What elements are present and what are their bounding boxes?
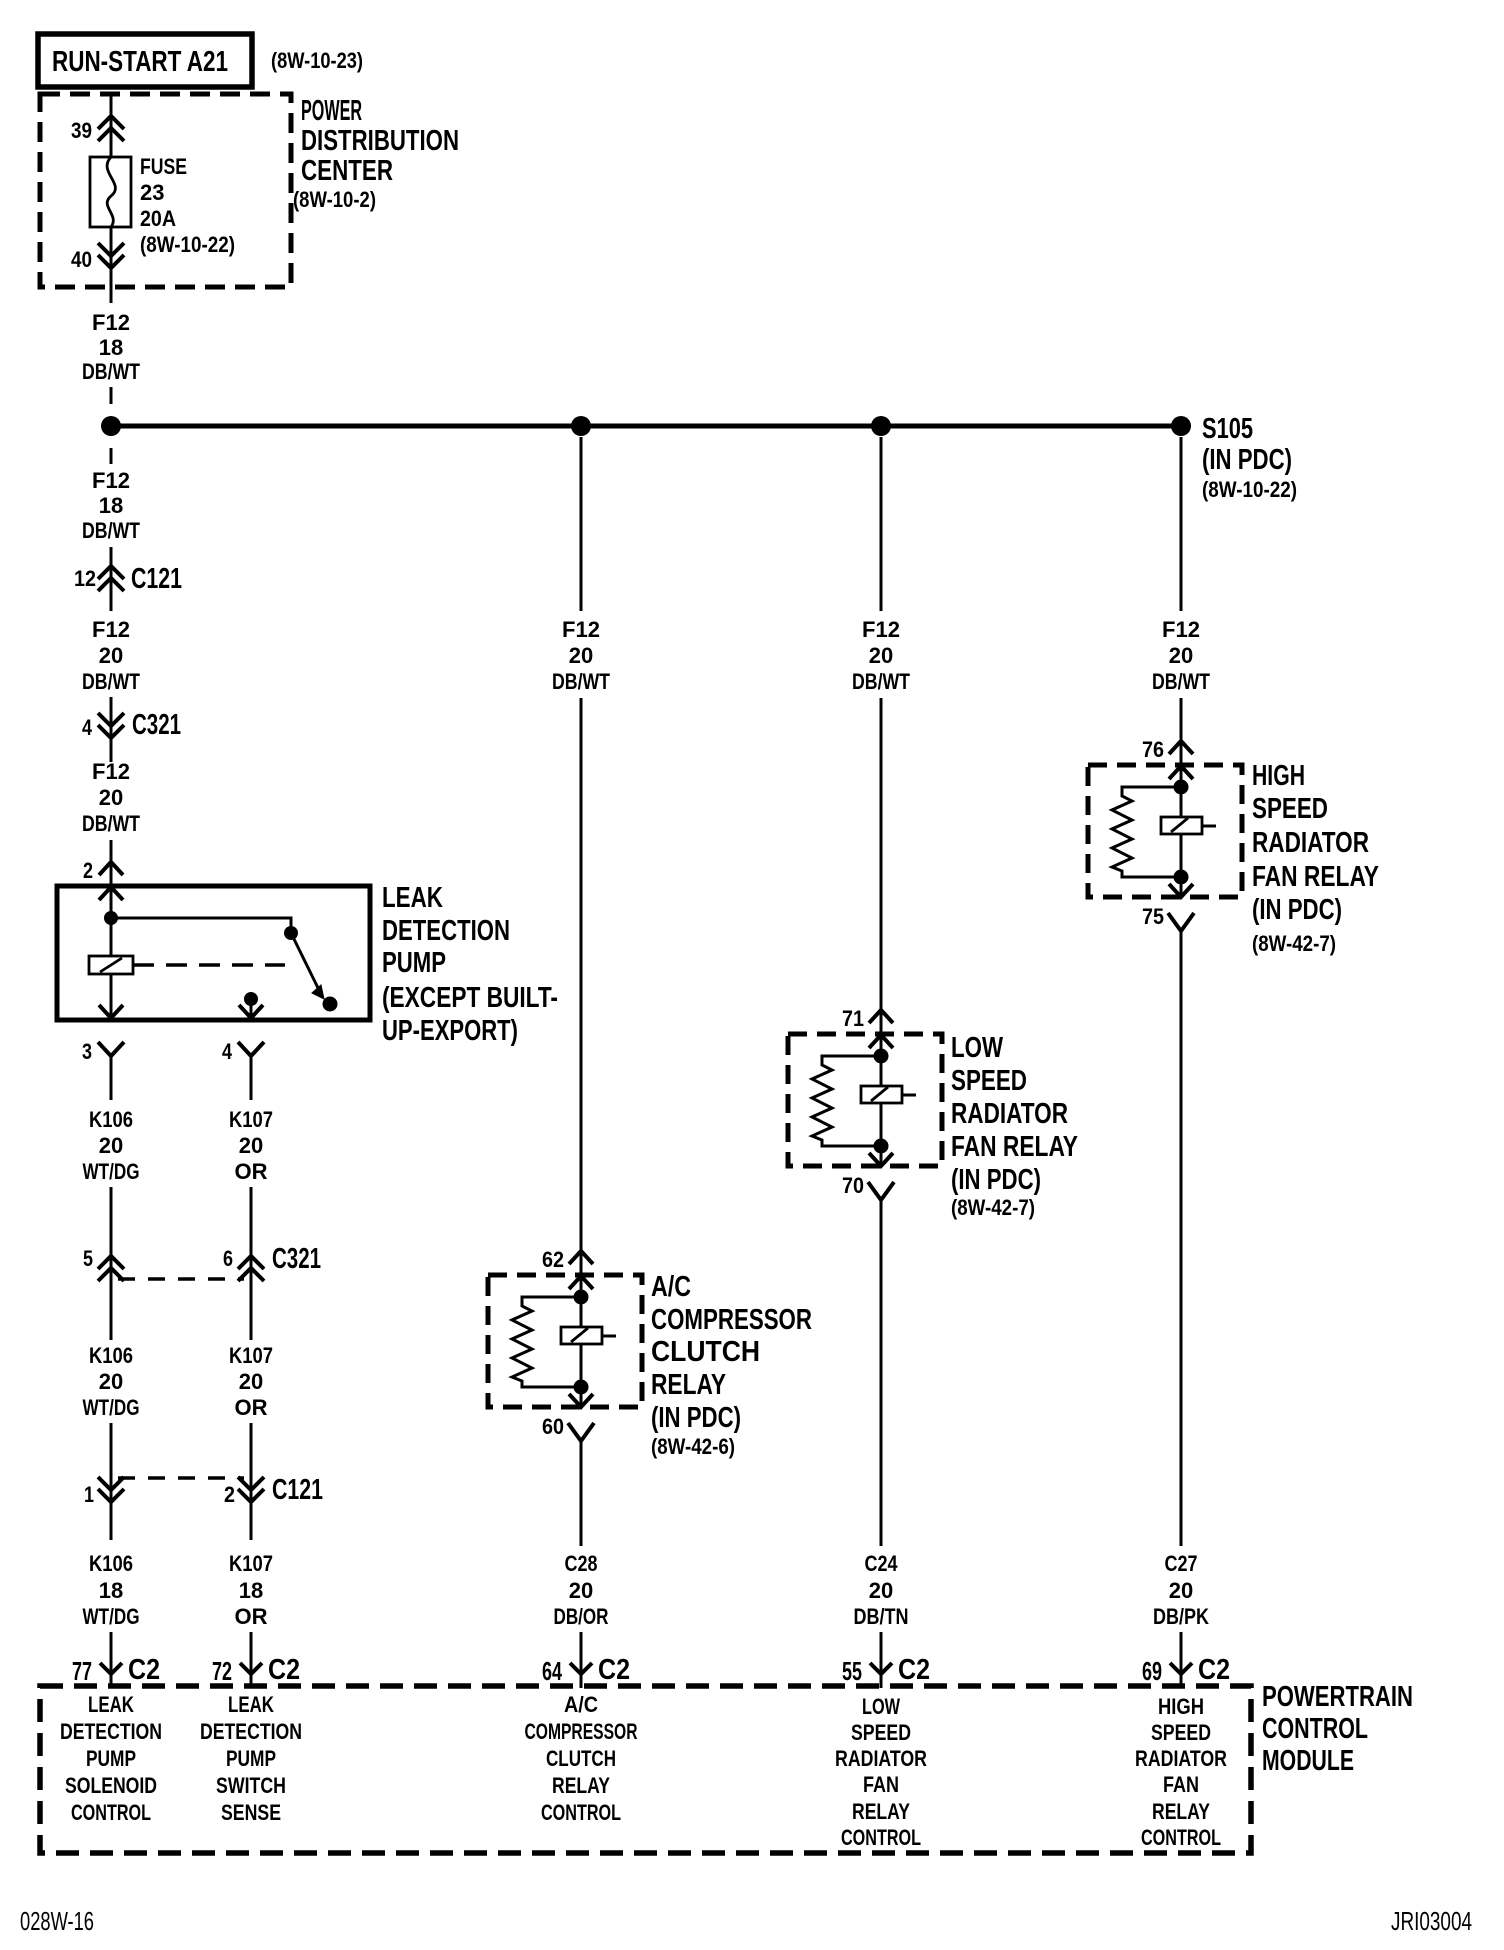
wire bus to A/C relay branch (580, 437, 583, 611)
svg-text:UP-EXPORT): UP-EXPORT) (382, 1015, 518, 1047)
high speed radiator fan relay pin 75 connector (1168, 913, 1194, 931)
wire junction to solenoid coil (110, 918, 113, 956)
A/C compressor clutch relay feed stem (580, 1251, 583, 1297)
svg-text:C2: C2 (268, 1654, 300, 1686)
svg-text:K106: K106 (89, 1551, 133, 1576)
pump pin 3 exit chevron (99, 1005, 123, 1018)
svg-text:DB/WT: DB/WT (552, 669, 610, 694)
wire solenoid coil to pin 3 (110, 974, 113, 1018)
connector C121 pin 2 (238, 1477, 264, 1502)
svg-text:DB/WT: DB/WT (82, 359, 140, 384)
svg-text:F12: F12 (92, 468, 130, 493)
svg-text:HIGH: HIGH (1252, 760, 1305, 792)
label POWER DISTRIBUTION CENTER (8W-10-2) (293, 95, 459, 212)
svg-text:RADIATOR: RADIATOR (1135, 1746, 1227, 1771)
junction switch pivot (284, 926, 298, 940)
svg-text:75: 75 (1142, 904, 1164, 929)
svg-text:MODULE: MODULE (1262, 1745, 1354, 1777)
svg-text:(8W-42-7): (8W-42-7) (1252, 931, 1336, 956)
svg-text:RADIATOR: RADIATOR (1252, 827, 1369, 859)
wire down to A/C compressor clutch relay (580, 698, 583, 1251)
svg-text:5: 5 (83, 1246, 93, 1271)
high speed radiator fan relay pin 75 exit chevron (1169, 884, 1193, 897)
svg-text:62: 62 (542, 1247, 564, 1272)
svg-text:RELAY: RELAY (852, 1799, 910, 1824)
low speed radiator fan relay coil wire upper (880, 1056, 883, 1086)
low speed radiator fan relay relay coil (861, 1086, 902, 1103)
wire label K107 20 OR second (229, 1343, 273, 1420)
wire bus to low speed relay branch (880, 437, 883, 611)
svg-text:(IN PDC): (IN PDC) (951, 1164, 1041, 1196)
A/C compressor clutch relay enclosure (488, 1275, 642, 1407)
svg-text:SPEED: SPEED (1151, 1720, 1211, 1745)
svg-text:(8W-42-7): (8W-42-7) (951, 1195, 1035, 1220)
svg-text:6: 6 (223, 1246, 233, 1271)
wire K107 to C321 pin 6 (250, 1187, 253, 1340)
pin function leak detection pump switch sense (200, 1692, 302, 1825)
svg-text:CONTROL: CONTROL (1262, 1713, 1368, 1745)
connector C321 pin 6 (238, 1256, 264, 1281)
switch throw contact junction (244, 992, 258, 1006)
svg-text:CONTROL: CONTROL (841, 1825, 921, 1850)
high speed radiator fan relay coil wire lower (1180, 834, 1183, 877)
svg-text:FAN: FAN (1163, 1772, 1199, 1797)
wire C27 to PCM pin 69 (1180, 1632, 1183, 1662)
svg-text:DISTRIBUTION: DISTRIBUTION (301, 125, 459, 157)
wire label K106 20 WT/DG (83, 1107, 140, 1184)
low speed radiator fan relay pin 70 exit chevron (869, 1153, 893, 1166)
svg-text:4: 4 (82, 715, 93, 740)
svg-text:20: 20 (869, 1578, 893, 1603)
low speed radiator fan relay pin 71 connector (869, 1010, 893, 1048)
svg-text:18: 18 (99, 1578, 123, 1603)
label HIGH SPEED RADIATOR FAN RELAY (IN PDC) (8W-42-7) (1252, 760, 1379, 956)
A/C compressor clutch relay coil wire upper (580, 1297, 583, 1327)
low speed radiator fan relay coil wire lower (880, 1103, 883, 1146)
svg-text:RELAY: RELAY (1152, 1799, 1210, 1824)
svg-text:72: 72 (212, 1656, 232, 1686)
svg-text:(8W-10-22): (8W-10-22) (1202, 477, 1297, 502)
wire label K106 20 WT/DG second (83, 1343, 140, 1420)
high speed radiator fan relay exit stem (1180, 877, 1183, 897)
svg-text:LEAK: LEAK (382, 882, 443, 914)
high speed radiator fan relay bottom junction (1174, 870, 1189, 885)
svg-text:DB/WT: DB/WT (1152, 669, 1210, 694)
svg-text:DB/PK: DB/PK (1153, 1604, 1209, 1629)
svg-text:C321: C321 (132, 709, 181, 741)
svg-text:DB/TN: DB/TN (854, 1604, 909, 1629)
switch blade contact junction (323, 997, 338, 1012)
svg-text:POWERTRAIN: POWERTRAIN (1262, 1681, 1413, 1713)
svg-text:64: 64 (542, 1656, 562, 1686)
svg-text:C28: C28 (565, 1551, 598, 1576)
svg-text:CLUTCH: CLUTCH (546, 1746, 616, 1771)
svg-text:70: 70 (842, 1173, 864, 1198)
svg-text:1: 1 (84, 1482, 94, 1507)
label LEAK DETECTION PUMP (EXCEPT BUILT-UP-EXPORT) (382, 882, 558, 1047)
svg-text:WT/DG: WT/DG (83, 1395, 140, 1420)
powertrain control module enclosure (40, 1686, 1251, 1853)
svg-text:DB/WT: DB/WT (82, 518, 140, 543)
pin 40 connector (98, 243, 124, 268)
wire down to low speed radiator fan relay (880, 698, 883, 1010)
svg-text:(8W-10-22): (8W-10-22) (140, 232, 235, 257)
svg-text:CENTER: CENTER (301, 155, 393, 187)
svg-text:3: 3 (82, 1039, 92, 1064)
svg-text:(EXCEPT BUILT-: (EXCEPT BUILT- (382, 982, 558, 1014)
svg-text:20A: 20A (140, 206, 176, 231)
svg-text:77: 77 (72, 1656, 92, 1686)
wire to connector C321 pin 4 (110, 697, 113, 762)
A/C compressor clutch relay relay coil (561, 1327, 602, 1344)
net label RUN-START A21 box (38, 34, 252, 87)
svg-text:71: 71 (842, 1006, 864, 1031)
svg-text:C121: C121 (131, 563, 182, 595)
label POWERTRAIN CONTROL MODULE (1262, 1681, 1413, 1777)
svg-text:F12: F12 (1162, 617, 1200, 642)
svg-text:K107: K107 (229, 1551, 273, 1576)
wire K106 to C321 pin 5 (110, 1187, 113, 1340)
svg-text:RADIATOR: RADIATOR (835, 1746, 927, 1771)
svg-text:2: 2 (224, 1482, 235, 1507)
high speed radiator fan relay enclosure (1088, 765, 1242, 897)
wire to leak detection pump pin 2 (110, 840, 113, 918)
wire A/C relay pin 60 down (580, 1441, 583, 1546)
svg-text:DB/WT: DB/WT (82, 811, 140, 836)
wire label F12 20 DB/WT low speed branch (852, 617, 910, 694)
svg-text:DETECTION: DETECTION (60, 1719, 162, 1744)
wire high speed relay pin 75 down (1180, 931, 1183, 1546)
low speed radiator fan relay top junction (874, 1049, 889, 1064)
svg-text:20: 20 (99, 1133, 123, 1158)
wire splice S105 to high speed relay branch (1180, 437, 1183, 611)
connector C2 pin 72 (240, 1662, 262, 1688)
A/C compressor clutch relay exit stem (580, 1387, 583, 1407)
low speed radiator fan relay coil stub (902, 1094, 916, 1097)
low speed radiator fan relay exit stem (880, 1146, 883, 1166)
pump pin 3 connector (98, 1042, 124, 1056)
svg-text:20: 20 (99, 643, 123, 668)
high speed radiator fan relay suppression resistor (1112, 787, 1181, 877)
svg-text:COMPRESSOR: COMPRESSOR (651, 1304, 812, 1336)
svg-text:C2: C2 (898, 1654, 930, 1686)
A/C compressor clutch relay pin 62 connector (569, 1251, 593, 1289)
svg-text:40: 40 (71, 247, 92, 272)
svg-text:C2: C2 (598, 1654, 630, 1686)
svg-text:20: 20 (239, 1133, 263, 1158)
wire low speed relay pin 70 down (880, 1200, 883, 1546)
pump pin 4 connector (238, 1042, 264, 1056)
svg-text:CONTROL: CONTROL (71, 1800, 151, 1825)
svg-text:2: 2 (83, 858, 93, 883)
svg-text:FUSE: FUSE (140, 154, 187, 179)
svg-text:RELAY: RELAY (651, 1369, 726, 1401)
connector C121 pin 1 (98, 1477, 124, 1502)
wire label F12 20 DB/WT second (82, 759, 140, 836)
high speed radiator fan relay feed stem (1180, 741, 1183, 787)
pump switch blade (291, 933, 324, 999)
high speed radiator fan relay relay coil (1161, 817, 1202, 834)
wire fuse to pin 40 (110, 227, 113, 268)
pin function low speed radiator fan relay control (835, 1694, 927, 1850)
wire down to high speed radiator fan relay (1180, 698, 1183, 741)
power distribution center enclosure (40, 94, 291, 287)
svg-text:K107: K107 (229, 1107, 273, 1132)
svg-text:CONTROL: CONTROL (1141, 1825, 1221, 1850)
svg-text:60: 60 (542, 1414, 564, 1439)
svg-text:SPEED: SPEED (851, 1720, 911, 1745)
svg-text:FAN RELAY: FAN RELAY (1252, 861, 1379, 893)
svg-text:RELAY: RELAY (552, 1773, 610, 1798)
pump pin 4 exit chevron (239, 1005, 263, 1018)
label LOW SPEED RADIATOR FAN RELAY (IN PDC) (8W-42-7) (951, 1032, 1078, 1220)
A/C compressor clutch relay pin 60 exit chevron (569, 1394, 593, 1407)
wire C24 to PCM pin 55 (880, 1632, 883, 1662)
connector C321 pin 5 (98, 1256, 124, 1281)
high speed radiator fan relay pin 76 connector (1169, 741, 1193, 779)
svg-text:20: 20 (99, 1369, 123, 1394)
wire label F12 20 DB/WT A/C branch (552, 617, 610, 694)
svg-text:20: 20 (869, 643, 893, 668)
junction at leak detection pump branch (101, 416, 121, 436)
mechanical link dashed (133, 963, 285, 967)
svg-text:(IN PDC): (IN PDC) (651, 1402, 741, 1434)
svg-text:20: 20 (1169, 643, 1193, 668)
high speed radiator fan relay coil stub (1202, 825, 1216, 828)
pump pin 2 connector (99, 862, 123, 900)
connector C2 pin 77 (100, 1662, 122, 1688)
svg-text:(8W-10-2): (8W-10-2) (293, 187, 376, 212)
svg-text:DETECTION: DETECTION (200, 1719, 302, 1744)
low speed radiator fan relay bottom junction (874, 1139, 889, 1154)
svg-text:12: 12 (74, 566, 96, 591)
wire C28 to PCM pin 64 (580, 1632, 583, 1662)
wire bus of splice S105 (111, 424, 1181, 429)
wire label F12 18 DB/WT (82, 310, 140, 384)
svg-text:FAN RELAY: FAN RELAY (951, 1131, 1078, 1163)
connector C121 pin 12 (98, 566, 124, 591)
wire label K106 18 WT/DG (83, 1551, 140, 1629)
high speed radiator fan relay coil wire upper (1180, 787, 1183, 817)
svg-text:C24: C24 (865, 1551, 899, 1576)
svg-text:OR: OR (235, 1159, 268, 1184)
svg-text:20: 20 (1169, 1578, 1193, 1603)
connector C121 link dashed (118, 1476, 244, 1480)
svg-text:PUMP: PUMP (226, 1746, 276, 1771)
svg-text:OR: OR (235, 1604, 268, 1629)
svg-text:PUMP: PUMP (86, 1746, 136, 1771)
A/C compressor clutch relay top junction (574, 1290, 589, 1305)
svg-text:SPEED: SPEED (1252, 793, 1328, 825)
junction at low speed radiator fan relay branch (871, 416, 891, 436)
svg-text:LEAK: LEAK (228, 1692, 274, 1717)
svg-text:WT/DG: WT/DG (83, 1604, 140, 1629)
high speed radiator fan relay top junction (1174, 780, 1189, 795)
wire switch feed (111, 918, 291, 933)
junction at A/C compressor clutch relay branch (571, 416, 591, 436)
svg-text:028W-16: 028W-16 (20, 1906, 94, 1936)
svg-text:DB/WT: DB/WT (82, 669, 140, 694)
svg-text:A/C: A/C (651, 1271, 691, 1303)
pump solenoid coil (89, 956, 133, 974)
svg-text:RUN-START A21: RUN-START A21 (52, 46, 228, 78)
svg-text:23: 23 (140, 180, 164, 205)
svg-text:C321: C321 (272, 1243, 321, 1275)
fuse F23 body (90, 157, 131, 227)
svg-text:18: 18 (239, 1578, 263, 1603)
pin 39 connector (98, 116, 124, 141)
svg-text:20: 20 (99, 785, 123, 810)
low speed radiator fan relay pin 70 connector (868, 1182, 894, 1200)
wire pump pin 3 down (110, 1056, 113, 1100)
svg-text:A/C: A/C (564, 1692, 598, 1717)
wire stub above splice S105 (110, 387, 113, 404)
svg-text:CONTROL: CONTROL (541, 1800, 621, 1825)
pin function leak detection pump solenoid control (60, 1692, 162, 1825)
pin function high speed radiator fan relay control (1135, 1694, 1227, 1850)
label splice S105 (IN PDC) (8W-10-22) (1202, 413, 1297, 502)
svg-text:SPEED: SPEED (951, 1065, 1027, 1097)
svg-text:JRI03004: JRI03004 (1391, 1906, 1472, 1936)
wire label K107 20 OR (229, 1107, 273, 1184)
svg-text:18: 18 (99, 493, 123, 518)
wire label F12 20 DB/WT high speed branch (1152, 617, 1210, 694)
connector C321 link dashed (118, 1277, 244, 1281)
wire label C24 20 DB/TN (854, 1551, 909, 1629)
svg-text:20: 20 (569, 643, 593, 668)
svg-text:20: 20 (569, 1578, 593, 1603)
svg-text:CLUTCH: CLUTCH (651, 1336, 760, 1368)
svg-text:18: 18 (99, 335, 123, 360)
wire label C28 20 DB/OR (554, 1551, 609, 1629)
wire label F12 20 DB/WT (82, 617, 140, 694)
svg-text:C121: C121 (272, 1474, 323, 1506)
svg-text:RADIATOR: RADIATOR (951, 1098, 1068, 1130)
svg-text:39: 39 (71, 118, 92, 143)
low speed radiator fan relay enclosure (788, 1034, 942, 1166)
svg-text:69: 69 (1142, 1656, 1162, 1686)
svg-text:DB/OR: DB/OR (554, 1604, 609, 1629)
wire label C27 20 DB/PK (1153, 1551, 1209, 1629)
connector C2 pin 69 (1170, 1662, 1192, 1688)
wire to connector C121 pin 12 (110, 547, 113, 611)
wire label F12 18 DB/WT below splice (82, 468, 140, 543)
svg-text:55: 55 (842, 1656, 862, 1686)
svg-text:76: 76 (1142, 737, 1164, 762)
svg-text:PUMP: PUMP (382, 947, 446, 979)
svg-text:COMPRESSOR: COMPRESSOR (525, 1719, 638, 1744)
svg-text:20: 20 (239, 1369, 263, 1394)
wire K107 to C121 pin 2 (250, 1423, 253, 1540)
svg-text:SOLENOID: SOLENOID (65, 1773, 157, 1798)
svg-text:K106: K106 (89, 1107, 133, 1132)
wire K106 to C121 pin 1 (110, 1423, 113, 1540)
svg-text:4: 4 (222, 1039, 233, 1064)
svg-text:FAN: FAN (863, 1772, 899, 1797)
svg-text:F12: F12 (92, 310, 130, 335)
low speed radiator fan relay suppression resistor (812, 1056, 881, 1146)
A/C compressor clutch relay bottom junction (574, 1380, 589, 1395)
svg-text:SENSE: SENSE (221, 1800, 281, 1825)
svg-text:SWITCH: SWITCH (216, 1773, 286, 1798)
svg-text:LOW: LOW (862, 1694, 900, 1719)
svg-text:WT/DG: WT/DG (83, 1159, 140, 1184)
junction at splice S105 end (1171, 416, 1191, 436)
svg-text:C27: C27 (1165, 1551, 1198, 1576)
svg-text:K106: K106 (89, 1343, 133, 1368)
leak detection pump enclosure (57, 886, 370, 1020)
svg-text:OR: OR (235, 1395, 268, 1420)
wire PDC top to pin 39 (110, 94, 113, 157)
wire K107 to PCM pin 72 (250, 1632, 253, 1662)
junction pump coil feed (104, 911, 118, 925)
svg-text:POWER: POWER (301, 95, 362, 127)
svg-text:DETECTION: DETECTION (382, 915, 510, 947)
A/C compressor clutch relay pin 60 connector (568, 1423, 594, 1441)
low speed radiator fan relay feed stem (880, 1010, 883, 1056)
wire contact to pin 4 (250, 999, 253, 1018)
svg-text:(8W-10-23): (8W-10-23) (271, 48, 363, 73)
connector C2 pin 64 (570, 1662, 592, 1688)
A/C compressor clutch relay suppression resistor (512, 1297, 581, 1387)
wire label K107 18 OR (229, 1551, 273, 1629)
svg-text:LEAK: LEAK (88, 1692, 134, 1717)
svg-text:C2: C2 (1198, 1654, 1230, 1686)
A/C compressor clutch relay coil stub (602, 1335, 616, 1338)
fuse F23 element (107, 157, 115, 227)
wire pin 40 through PDC bottom (110, 268, 113, 303)
svg-text:(IN PDC): (IN PDC) (1252, 894, 1342, 926)
pin function A/C compressor clutch relay control (525, 1692, 638, 1825)
label FUSE 23 20A (8W-10-22) (140, 154, 235, 257)
svg-text:C2: C2 (128, 1654, 160, 1686)
svg-text:F12: F12 (92, 759, 130, 784)
svg-text:F12: F12 (862, 617, 900, 642)
label A/C COMPRESSOR CLUTCH RELAY (IN PDC) (8W-42-6) (651, 1271, 812, 1459)
wire stub below splice S105 (110, 448, 113, 464)
connector C321 pin 4 (98, 713, 124, 738)
svg-text:LOW: LOW (951, 1032, 1003, 1064)
A/C compressor clutch relay coil wire lower (580, 1344, 583, 1387)
wire K106 to PCM pin 77 (110, 1632, 113, 1662)
svg-text:S105: S105 (1202, 413, 1253, 445)
wire pump pin 4 down (250, 1056, 253, 1100)
connector C2 pin 55 (870, 1662, 892, 1688)
svg-text:HIGH: HIGH (1158, 1694, 1204, 1719)
svg-text:K107: K107 (229, 1343, 273, 1368)
svg-text:(IN PDC): (IN PDC) (1202, 444, 1292, 476)
svg-text:DB/WT: DB/WT (852, 669, 910, 694)
svg-text:F12: F12 (562, 617, 600, 642)
svg-text:F12: F12 (92, 617, 130, 642)
svg-text:(8W-42-6): (8W-42-6) (651, 1434, 735, 1459)
